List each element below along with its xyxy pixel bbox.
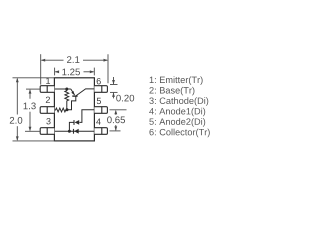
dimension 0.65 arrowheads	[114, 110, 117, 115]
wire emitter from pin1 to node	[54, 88, 70, 90]
pin 4 lead	[94, 128, 107, 135]
node cathode junction dot	[68, 130, 71, 133]
transistor Q1 emitter arrowhead	[71, 91, 74, 95]
legend line 6	[149, 129, 209, 138]
pin number label 6	[97, 78, 101, 84]
pin 1 lead	[40, 86, 54, 93]
transistor Q1 base bar	[72, 95, 77, 97]
dimension 1.25 arrowheads	[55, 70, 60, 73]
dimension 2.0 extension line bottom	[13, 140, 55, 142]
pin number label 2	[46, 97, 50, 103]
dimension 1.3 line	[29, 90, 31, 131]
legend line 2	[149, 87, 194, 96]
transistor Q1 collector	[76, 89, 94, 96]
legend line 4	[149, 108, 205, 117]
dimension 1.25 line	[55, 71, 93, 73]
pin number label 3	[46, 118, 50, 124]
dimension 1.25 tick left	[54, 68, 56, 76]
diode D2 triangle	[75, 120, 80, 125]
diode D1 triangle	[74, 129, 79, 134]
wire common cathode bottom (pin3 to pin4)	[54, 130, 94, 132]
legend line 3	[149, 97, 208, 106]
dimension 1.3 arrowheads	[29, 89, 32, 94]
dimension 1.25 tick right	[93, 68, 95, 76]
dimension label 0.20	[116, 95, 134, 102]
wire base from bar to R1 node	[67, 96, 76, 110]
diode D1 cathode bar	[73, 129, 75, 134]
wire diode D2 anode to pin 5	[79, 110, 94, 123]
pin 2 lead	[40, 107, 54, 114]
dimension label 1.3	[24, 103, 36, 110]
wire from cathode node up to diode D2	[69, 122, 74, 131]
pin 3 lead	[40, 128, 54, 135]
pin number label 5	[97, 98, 101, 104]
dimension 1.3 extension line bottom	[25, 130, 40, 132]
dimension 2.1 arrowheads	[41, 59, 46, 62]
transistor Q1 (PNP) emitter diagonal	[71, 89, 75, 95]
dimension 2.1 line	[42, 59, 108, 61]
pin number label 1	[46, 78, 50, 84]
dimension 0.65 tick bottom	[110, 130, 121, 132]
package body outline	[54, 78, 94, 141]
pin number label 4	[96, 119, 101, 125]
dimension 2.0 extension line top	[13, 77, 55, 79]
dimension 0.20 arrows	[113, 77, 115, 98]
dimension 1.3 extension line top	[26, 88, 40, 90]
legend line 5	[149, 118, 205, 127]
pin 6 lead	[94, 86, 107, 93]
dimension label 2.1	[67, 56, 79, 63]
node emitter junction dot	[65, 88, 68, 91]
dimension label 0.65	[107, 116, 125, 123]
dimension label 1.25	[62, 69, 80, 76]
resistor R2 (base-emitter, vertical zigzag)	[65, 89, 69, 110]
dimension 0.65 tick top	[110, 109, 127, 111]
diode D2 cathode bar	[73, 120, 75, 125]
resistor R1 (series base, horizontal zigzag)	[54, 108, 67, 112]
dimension label 2.0	[10, 117, 22, 124]
dimension 0.20 tick top	[110, 84, 118, 86]
legend line 1	[150, 76, 203, 85]
dimension 2.1 extension line left	[40, 54, 42, 84]
dimension 2.0 arrowheads	[16, 78, 19, 83]
dimension 0.20 tick bottom	[110, 91, 118, 93]
dimension 0.65 line	[115, 114, 117, 131]
node base junction dot	[66, 108, 69, 111]
dimension 2.0 line	[16, 79, 18, 141]
pin 5 lead	[94, 107, 107, 114]
dimension 2.1 extension line right	[107, 54, 109, 83]
